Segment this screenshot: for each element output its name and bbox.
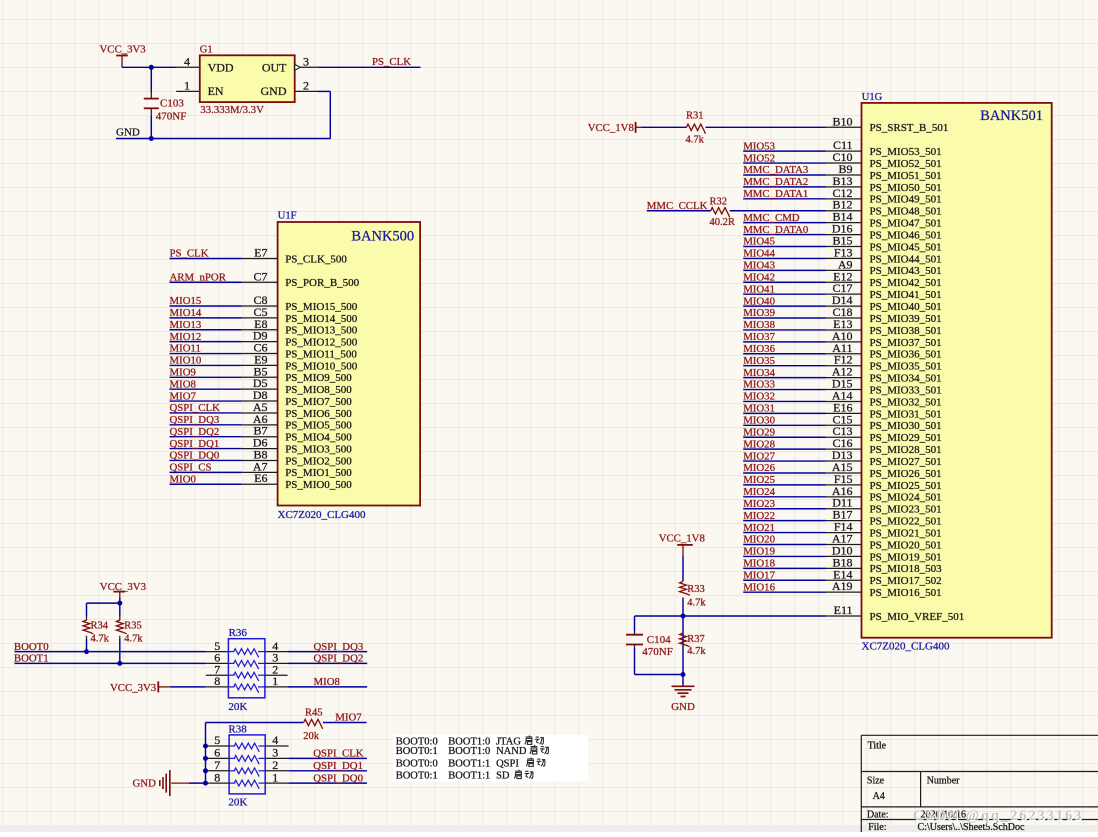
- svg-text:PS_MIO23_501: PS_MIO23_501: [870, 504, 942, 516]
- svg-text:PS_MIO27_501: PS_MIO27_501: [870, 456, 942, 468]
- svg-text:MIO40: MIO40: [743, 295, 775, 307]
- svg-text:CSDN @qq_26233163: CSDN @qq_26233163: [913, 808, 1083, 824]
- svg-text:470NF: 470NF: [642, 646, 673, 658]
- svg-text:MIO18: MIO18: [743, 558, 775, 570]
- svg-text:QSPI_DQ0: QSPI_DQ0: [170, 450, 220, 462]
- svg-text:PS_MIO13_500: PS_MIO13_500: [285, 325, 358, 337]
- svg-text:PS_MIO_VREF_501: PS_MIO_VREF_501: [870, 611, 965, 623]
- svg-text:QSPI_CLK: QSPI_CLK: [313, 748, 364, 760]
- svg-text:XC7Z020_CLG400: XC7Z020_CLG400: [278, 509, 367, 521]
- svg-text:PS_MIO32_501: PS_MIO32_501: [870, 396, 942, 408]
- svg-text:MIO33: MIO33: [743, 379, 775, 391]
- svg-text:PS_MIO28_501: PS_MIO28_501: [870, 444, 942, 456]
- svg-text:R36: R36: [229, 627, 248, 639]
- svg-text:MIO13: MIO13: [170, 319, 202, 331]
- svg-text:QSPI_CLK: QSPI_CLK: [170, 402, 221, 414]
- svg-text:PS_POR_B_500: PS_POR_B_500: [285, 277, 359, 289]
- svg-text:BOOT0:1: BOOT0:1: [396, 746, 438, 757]
- svg-text:MIO22: MIO22: [743, 510, 775, 522]
- svg-text:R34: R34: [91, 620, 109, 631]
- svg-text:2: 2: [303, 78, 309, 92]
- svg-text:GND: GND: [261, 84, 287, 98]
- svg-text:MIO42: MIO42: [743, 271, 775, 283]
- svg-text:4.7k: 4.7k: [687, 646, 706, 657]
- svg-text:PS_MIO26_501: PS_MIO26_501: [870, 468, 942, 480]
- svg-text:R35: R35: [124, 620, 142, 631]
- svg-text:4.7k: 4.7k: [124, 634, 143, 645]
- svg-text:MIO12: MIO12: [170, 331, 202, 343]
- svg-text:PS_MIO11_500: PS_MIO11_500: [285, 348, 357, 360]
- svg-text:MIO7: MIO7: [170, 390, 197, 402]
- svg-text:GND: GND: [133, 777, 157, 789]
- svg-text:ARM_nPOR: ARM_nPOR: [170, 271, 227, 283]
- svg-text:A4: A4: [873, 791, 885, 802]
- svg-text:PS_MIO35_501: PS_MIO35_501: [870, 361, 942, 373]
- svg-text:MIO52: MIO52: [743, 152, 775, 164]
- svg-text:MIO8: MIO8: [314, 676, 340, 688]
- svg-text:MIO14: MIO14: [170, 307, 202, 319]
- svg-text:QSPI_DQ2: QSPI_DQ2: [314, 653, 364, 665]
- svg-text:MIO30: MIO30: [743, 415, 775, 427]
- svg-text:PS_MIO25_501: PS_MIO25_501: [870, 480, 942, 492]
- svg-text:PS_MIO41_501: PS_MIO41_501: [870, 289, 942, 301]
- svg-text:MIO38: MIO38: [743, 319, 775, 331]
- svg-text:MIO0: MIO0: [170, 473, 196, 485]
- svg-text:PS_MIO31_501: PS_MIO31_501: [870, 408, 942, 420]
- svg-text:MIO34: MIO34: [743, 367, 775, 379]
- svg-text:QSPI_DQ1: QSPI_DQ1: [170, 438, 220, 450]
- svg-text:MIO17: MIO17: [743, 569, 775, 581]
- svg-text:PS_MIO52_501: PS_MIO52_501: [870, 158, 942, 170]
- svg-text:20k: 20k: [303, 731, 320, 742]
- svg-text:MIO32: MIO32: [743, 391, 775, 403]
- svg-text:PS_MIO2_500: PS_MIO2_500: [285, 455, 352, 467]
- svg-text:MIO11: MIO11: [170, 343, 201, 355]
- svg-text:MMC_DATA0: MMC_DATA0: [743, 224, 808, 236]
- svg-text:PS_MIO14_500: PS_MIO14_500: [285, 313, 358, 325]
- svg-text:MIO43: MIO43: [743, 260, 775, 272]
- svg-text:MIO53: MIO53: [743, 140, 775, 152]
- svg-text:QSPI_CS: QSPI_CS: [170, 462, 212, 474]
- svg-text:OUT: OUT: [262, 60, 287, 74]
- svg-text:PS_MIO19_501: PS_MIO19_501: [870, 551, 942, 563]
- svg-text:MIO44: MIO44: [743, 248, 775, 260]
- svg-text:PS_MIO7_500: PS_MIO7_500: [285, 396, 352, 408]
- svg-text:470NF: 470NF: [156, 111, 187, 123]
- svg-text:PS_MIO36_501: PS_MIO36_501: [870, 349, 942, 361]
- svg-text:4.7k: 4.7k: [687, 597, 706, 608]
- svg-text:MIO7: MIO7: [335, 712, 362, 724]
- svg-text:PS_MIO0_500: PS_MIO0_500: [285, 479, 352, 491]
- svg-text:PS_MIO12_500: PS_MIO12_500: [285, 337, 358, 349]
- svg-text:NAND: NAND: [496, 746, 527, 757]
- svg-text:PS_MIO18_503: PS_MIO18_503: [870, 563, 943, 575]
- svg-text:SD: SD: [496, 771, 510, 782]
- svg-text:PS_MIO6_500: PS_MIO6_500: [285, 408, 352, 420]
- svg-text:PS_MIO29_501: PS_MIO29_501: [870, 432, 942, 444]
- svg-text:BOOT0:1: BOOT0:1: [396, 771, 438, 782]
- svg-text:R37: R37: [687, 634, 705, 645]
- svg-text:VDD: VDD: [208, 60, 234, 74]
- svg-text:MIO39: MIO39: [743, 307, 775, 319]
- svg-text:PS_MIO17_502: PS_MIO17_502: [870, 575, 942, 587]
- svg-text:MMC_CMD: MMC_CMD: [743, 212, 800, 224]
- svg-text:PS_MIO22_501: PS_MIO22_501: [870, 516, 942, 528]
- svg-text:MIO27: MIO27: [743, 450, 775, 462]
- svg-text:BOOT0:0: BOOT0:0: [396, 758, 438, 769]
- svg-text:VCC_1V8: VCC_1V8: [588, 122, 634, 134]
- svg-text:PS_MIO10_500: PS_MIO10_500: [285, 360, 358, 372]
- svg-text:MIO16: MIO16: [743, 581, 775, 593]
- svg-text:1: 1: [272, 674, 278, 688]
- svg-text:PS_MIO47_501: PS_MIO47_501: [870, 218, 942, 230]
- svg-text:C104: C104: [647, 634, 671, 646]
- svg-text:4.7k: 4.7k: [91, 634, 110, 645]
- svg-text:R38: R38: [228, 723, 247, 735]
- svg-text:PS_MIO46_501: PS_MIO46_501: [870, 229, 942, 241]
- svg-text:8: 8: [214, 770, 220, 784]
- svg-text:PS_MIO4_500: PS_MIO4_500: [285, 432, 352, 444]
- svg-text:PS_MIO20_501: PS_MIO20_501: [870, 539, 942, 551]
- svg-text:PS_MIO39_501: PS_MIO39_501: [870, 313, 942, 325]
- svg-text:QSPI_DQ3: QSPI_DQ3: [170, 414, 220, 426]
- svg-text:PS_MIO48_501: PS_MIO48_501: [870, 206, 942, 218]
- svg-text:U1F: U1F: [278, 211, 297, 222]
- svg-text:XC7Z020_CLG400: XC7Z020_CLG400: [862, 641, 951, 653]
- svg-text:PS_MIO40_501: PS_MIO40_501: [870, 301, 942, 313]
- svg-text:PS_MIO50_501: PS_MIO50_501: [870, 182, 942, 194]
- svg-text:VCC_3V3: VCC_3V3: [100, 44, 146, 56]
- svg-text:PS_MIO45_501: PS_MIO45_501: [870, 241, 942, 253]
- svg-text:PS_CLK: PS_CLK: [170, 248, 209, 260]
- svg-text:E7: E7: [254, 246, 267, 260]
- svg-text:1: 1: [272, 770, 278, 784]
- svg-text:1: 1: [184, 78, 190, 92]
- svg-text:40.2R: 40.2R: [710, 217, 735, 228]
- svg-text:PS_MIO44_501: PS_MIO44_501: [870, 253, 942, 265]
- svg-text:MIO15: MIO15: [170, 295, 202, 307]
- svg-text:PS_MIO42_501: PS_MIO42_501: [870, 277, 942, 289]
- svg-text:R32: R32: [710, 196, 728, 207]
- svg-text:MIO21: MIO21: [743, 522, 775, 534]
- svg-text:PS_MIO34_501: PS_MIO34_501: [870, 373, 942, 385]
- svg-text:MMC_DATA1: MMC_DATA1: [743, 188, 808, 200]
- svg-text:PS_MIO24_501: PS_MIO24_501: [870, 492, 942, 504]
- svg-text:MMC_DATA3: MMC_DATA3: [743, 164, 808, 176]
- svg-text:U1G: U1G: [862, 92, 883, 103]
- svg-text:3: 3: [303, 54, 309, 68]
- svg-text:QSPI_DQ0: QSPI_DQ0: [313, 772, 363, 784]
- svg-text:PS_MIO16_501: PS_MIO16_501: [870, 587, 942, 599]
- svg-text:BANK501: BANK501: [980, 108, 1043, 124]
- svg-text:PS_MIO37_501: PS_MIO37_501: [870, 337, 942, 349]
- svg-text:BANK500: BANK500: [351, 229, 414, 245]
- svg-text:MIO45: MIO45: [743, 236, 775, 248]
- svg-text:8: 8: [214, 674, 220, 688]
- svg-text:PS_MIO43_501: PS_MIO43_501: [870, 265, 942, 277]
- svg-text:QSPI_DQ2: QSPI_DQ2: [170, 426, 220, 438]
- svg-text:20K: 20K: [228, 797, 247, 809]
- svg-text:PS_MIO38_501: PS_MIO38_501: [870, 325, 942, 337]
- svg-text:20K: 20K: [228, 701, 247, 713]
- svg-text:MIO36: MIO36: [743, 343, 775, 355]
- svg-text:R31: R31: [686, 111, 704, 122]
- svg-text:Title: Title: [868, 740, 887, 751]
- svg-text:MIO26: MIO26: [743, 462, 775, 474]
- svg-text:G1: G1: [200, 44, 213, 55]
- svg-text:PS_CLK_500: PS_CLK_500: [285, 253, 347, 265]
- svg-text:MIO37: MIO37: [743, 331, 775, 343]
- svg-text:PS_MIO33_501: PS_MIO33_501: [870, 384, 942, 396]
- svg-text:QSPI: QSPI: [496, 758, 519, 769]
- svg-text:MIO20: MIO20: [743, 534, 775, 546]
- svg-text:PS_MIO51_501: PS_MIO51_501: [870, 170, 942, 182]
- svg-text:R45: R45: [305, 708, 323, 719]
- svg-text:PS_MIO30_501: PS_MIO30_501: [870, 420, 942, 432]
- svg-text:C103: C103: [160, 98, 184, 110]
- svg-text:GND: GND: [671, 701, 695, 713]
- svg-text:E11: E11: [834, 603, 853, 617]
- svg-text:MIO31: MIO31: [743, 403, 775, 415]
- svg-text:BOOT1:0: BOOT1:0: [448, 746, 490, 757]
- svg-text:MIO35: MIO35: [743, 355, 775, 367]
- svg-text:Number: Number: [927, 775, 960, 786]
- svg-text:C7: C7: [253, 269, 267, 283]
- svg-text:PS_MIO53_501: PS_MIO53_501: [870, 146, 942, 158]
- svg-text:MIO10: MIO10: [170, 355, 202, 367]
- svg-text:VCC_3V3: VCC_3V3: [110, 682, 156, 694]
- svg-text:MIO24: MIO24: [743, 486, 775, 498]
- svg-text:PS_MIO49_501: PS_MIO49_501: [870, 194, 942, 206]
- svg-text:GND: GND: [116, 126, 140, 138]
- svg-text:PS_CLK: PS_CLK: [372, 56, 411, 68]
- svg-text:MIO28: MIO28: [743, 438, 775, 450]
- svg-text:MIO29: MIO29: [743, 426, 775, 438]
- svg-text:MMC_DATA2: MMC_DATA2: [743, 176, 808, 188]
- svg-text:BOOT1:1: BOOT1:1: [448, 771, 490, 782]
- svg-text:B10: B10: [832, 114, 852, 128]
- svg-text:4.7k: 4.7k: [686, 135, 705, 146]
- svg-text:PS_MIO5_500: PS_MIO5_500: [285, 420, 352, 432]
- svg-text:PS_MIO15_500: PS_MIO15_500: [285, 301, 358, 313]
- svg-text:EN: EN: [208, 84, 224, 98]
- svg-text:PS_MIO1_500: PS_MIO1_500: [285, 467, 352, 479]
- svg-text:MIO9: MIO9: [170, 367, 196, 379]
- svg-text:33.333M/3.3V: 33.333M/3.3V: [200, 104, 264, 116]
- svg-text:PS_MIO3_500: PS_MIO3_500: [285, 443, 352, 455]
- svg-text:PS_MIO9_500: PS_MIO9_500: [285, 372, 352, 384]
- svg-text:MIO25: MIO25: [743, 474, 775, 486]
- svg-text:QSPI_DQ3: QSPI_DQ3: [314, 641, 364, 653]
- svg-text:R33: R33: [687, 584, 705, 595]
- svg-text:A19: A19: [832, 579, 853, 593]
- svg-text:PS_MIO21_501: PS_MIO21_501: [870, 527, 942, 539]
- svg-text:MIO19: MIO19: [743, 546, 775, 558]
- svg-text:File:: File:: [868, 822, 886, 832]
- svg-text:E6: E6: [254, 471, 267, 485]
- svg-text:BOOT1:1: BOOT1:1: [448, 758, 490, 769]
- svg-text:Size: Size: [867, 775, 885, 786]
- svg-text:MIO23: MIO23: [743, 498, 775, 510]
- svg-text:QSPI_DQ1: QSPI_DQ1: [313, 760, 363, 772]
- svg-text:PS_MIO8_500: PS_MIO8_500: [285, 384, 352, 396]
- svg-text:MIO41: MIO41: [743, 283, 775, 295]
- svg-text:4: 4: [184, 54, 190, 68]
- svg-text:VCC_1V8: VCC_1V8: [659, 533, 705, 545]
- svg-text:PS_SRST_B_501: PS_SRST_B_501: [870, 122, 949, 134]
- svg-text:MIO8: MIO8: [170, 378, 196, 390]
- svg-text:Date:: Date:: [867, 809, 889, 820]
